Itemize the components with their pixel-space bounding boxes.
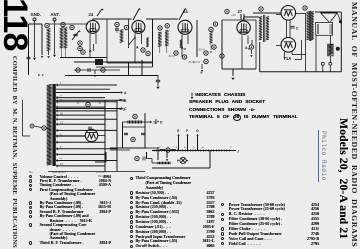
- svg-text:J: J: [237, 150, 239, 154]
- svg-text:1: 1: [77, 101, 79, 105]
- svg-text:+40: +40: [231, 13, 236, 17]
- svg-text:A: A: [136, 46, 139, 50]
- svg-text:A: A: [89, 49, 92, 53]
- svg-text:E: E: [38, 73, 40, 77]
- svg-text:.001 M: .001 M: [192, 60, 200, 64]
- svg-text:ANT.: ANT.: [51, 12, 60, 17]
- svg-text:80: 80: [88, 126, 92, 130]
- svg-text:.05 M: .05 M: [198, 48, 205, 52]
- svg-text:11: 11: [60, 121, 63, 125]
- svg-text:12: 12: [60, 162, 64, 166]
- svg-text:24: 24: [89, 12, 94, 17]
- svg-text:10: 10: [60, 111, 64, 115]
- svg-text:C: C: [296, 27, 299, 31]
- svg-text:F: F: [186, 129, 188, 133]
- svg-text:2: 2: [99, 101, 101, 105]
- svg-text:A: A: [245, 46, 248, 50]
- svg-text:F: F: [201, 71, 203, 75]
- svg-text:F: F: [42, 73, 44, 77]
- svg-text:24: 24: [183, 9, 188, 14]
- svg-text:27: 27: [238, 9, 243, 14]
- svg-text:›50 M: ›50 M: [168, 54, 175, 58]
- svg-text:E: E: [177, 129, 179, 133]
